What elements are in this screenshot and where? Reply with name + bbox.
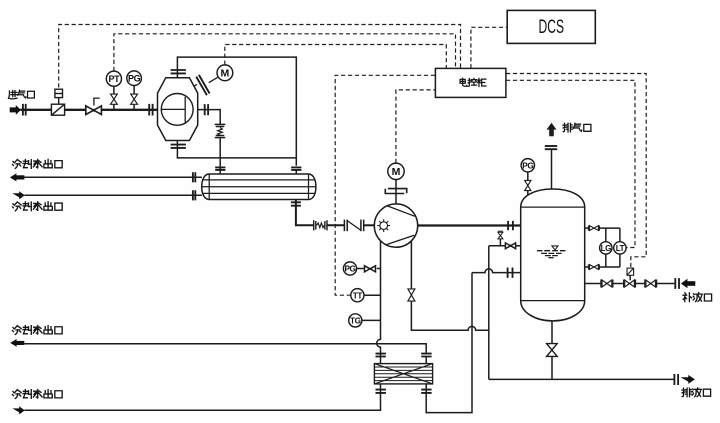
- svg-text:M: M: [392, 166, 401, 178]
- svg-text:PT: PT: [109, 74, 121, 84]
- svg-text:M: M: [221, 68, 230, 80]
- svg-text:DCS: DCS: [539, 16, 565, 38]
- svg-text:PG: PG: [522, 161, 533, 170]
- svg-text:LG: LG: [601, 244, 611, 253]
- svg-text:TG: TG: [350, 317, 361, 326]
- svg-text:LT: LT: [616, 244, 625, 253]
- svg-text:PG: PG: [128, 73, 141, 83]
- svg-text:TT: TT: [353, 291, 363, 300]
- svg-text:PG: PG: [344, 265, 355, 274]
